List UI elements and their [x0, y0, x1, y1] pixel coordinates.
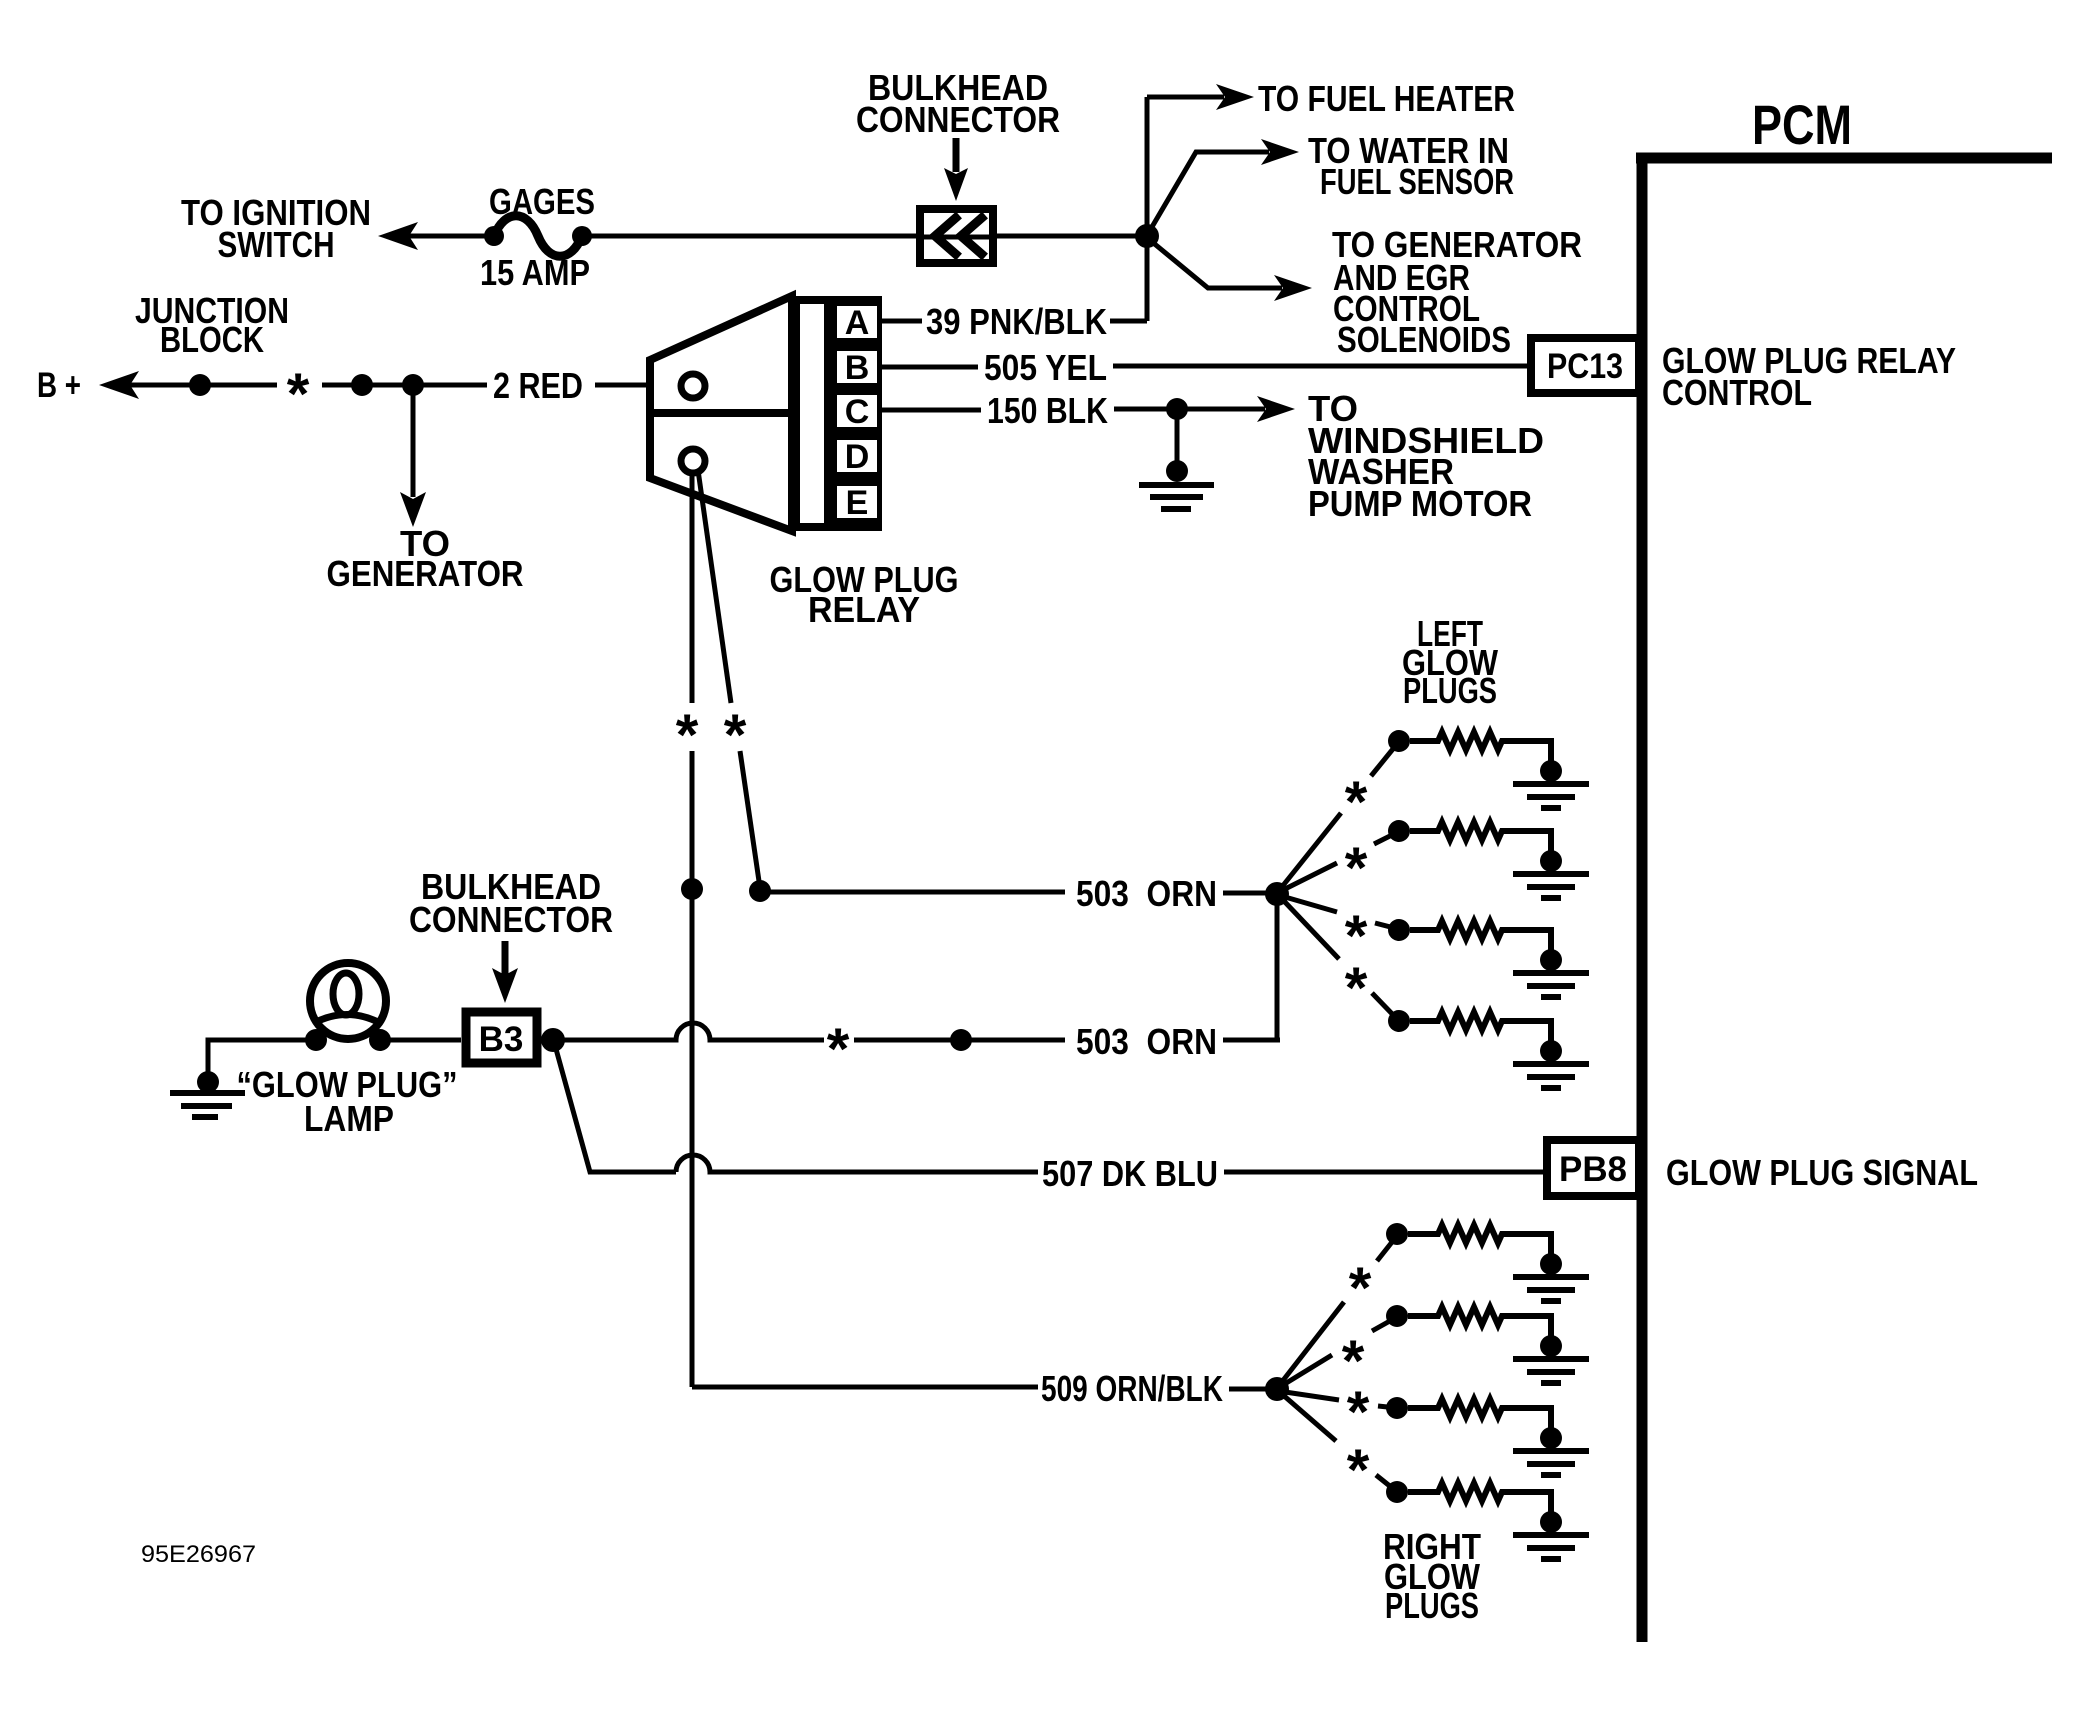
- svg-text:SWITCH: SWITCH: [218, 224, 335, 265]
- relay coil terminal upper: [681, 374, 705, 398]
- svg-text:150 BLK: 150 BLK: [987, 390, 1108, 431]
- glow plug L3: [1388, 919, 1589, 997]
- svg-text:D: D: [845, 438, 870, 476]
- label "GLOW PLUG" LAMP: [237, 1064, 458, 1139]
- label GLOW PLUG RELAY CONTROL: [1662, 340, 1956, 413]
- wire 505 YEL to PC13: [1113, 364, 1527, 369]
- node dot start of 503 ORN: [749, 880, 771, 902]
- svg-text:503 ORN: 503 ORN: [1076, 873, 1217, 914]
- arrow down to B3: [502, 941, 509, 976]
- wire fan L2: [1283, 863, 1337, 890]
- svg-text:LAMP: LAMP: [304, 1098, 394, 1139]
- svg-text:PC13: PC13: [1547, 347, 1623, 386]
- PCM top boundary line: [1636, 153, 2052, 164]
- wire 509 ORN/BLK: [692, 1385, 1038, 1390]
- svg-text:PLUGS: PLUGS: [1403, 670, 1497, 711]
- wire fan R3: [1285, 1392, 1339, 1400]
- svg-text:2 RED: 2 RED: [493, 365, 583, 406]
- svg-text:CONNECTOR: CONNECTOR: [856, 99, 1060, 140]
- svg-text:B3: B3: [479, 1020, 524, 1059]
- wire 150 BLK to ground junction: [1114, 407, 1265, 412]
- wire diagonal from relay lower terminal (upper part): [698, 470, 731, 703]
- relay coil terminal lower: [681, 449, 705, 473]
- svg-text:PB8: PB8: [1559, 1150, 1627, 1189]
- wire 509 ORN/BLK to fan junction: [1229, 1387, 1270, 1392]
- svg-text:*: *: [287, 362, 310, 427]
- wire 507 DK BLU (with hop): [676, 1155, 1038, 1172]
- wire fan R1: [1281, 1302, 1344, 1383]
- svg-text:*: *: [1345, 770, 1368, 835]
- wire pin C lead: [882, 408, 981, 413]
- connector B3: [466, 1012, 537, 1063]
- wire fuse to arrow: [409, 234, 494, 239]
- wire 507 DK BLU diagonal from B3: [556, 1049, 676, 1172]
- svg-text:CONTROL: CONTROL: [1662, 372, 1812, 413]
- wire fan junction down to lower 503 ORN: [1275, 894, 1280, 1040]
- glow plug R4: [1386, 1481, 1589, 1559]
- glow plug L2: [1388, 820, 1589, 898]
- arrow to ignition switch: [378, 222, 418, 250]
- svg-text:C: C: [845, 393, 870, 431]
- svg-text:15 AMP: 15 AMP: [480, 252, 590, 293]
- svg-text:PUMP MOTOR: PUMP MOTOR: [1308, 483, 1532, 524]
- svg-text:PCM: PCM: [1752, 93, 1852, 156]
- label TO GENERATOR AND EGR CONTROL SOLENOIDS: [1332, 224, 1582, 360]
- node dot 150 BLK: [1166, 398, 1188, 420]
- svg-text:*: *: [1347, 1380, 1370, 1445]
- label TO GENERATOR: [327, 523, 524, 594]
- wire vertical through junction (39 PNK/BLK riser): [1145, 97, 1150, 321]
- node fan junction right bank: [1265, 1377, 1289, 1401]
- terminal PC13: [1531, 338, 1639, 393]
- svg-text:GLOW PLUG SIGNAL: GLOW PLUG SIGNAL: [1666, 1152, 1978, 1193]
- wire 39 PNK/BLK to riser: [1110, 319, 1147, 324]
- svg-text:TO FUEL HEATER: TO FUEL HEATER: [1258, 78, 1515, 119]
- wire 503 ORN to fan junction: [1223, 891, 1270, 896]
- node dot: [351, 374, 373, 396]
- svg-text:*: *: [1347, 1438, 1370, 1503]
- svg-text:505 YEL: 505 YEL: [984, 347, 1107, 388]
- arrow to windshield washer pump motor: [1257, 396, 1295, 422]
- relay pin B: [837, 351, 877, 383]
- svg-text:503 ORN: 503 ORN: [1076, 1021, 1217, 1062]
- label GLOW PLUG RELAY: [770, 559, 959, 630]
- wire B+ right segment 2 RED: [322, 383, 487, 388]
- svg-text:SOLENOIDS: SOLENOIDS: [1337, 319, 1511, 360]
- node dot on B+ wire: [189, 374, 211, 396]
- wire fuse to bulkhead connector: [582, 234, 1147, 239]
- node dot on vertical wire: [681, 878, 703, 900]
- terminal PB8: [1547, 1140, 1639, 1196]
- svg-text:509 ORN/BLK: 509 ORN/BLK: [1041, 1368, 1223, 1409]
- glow plug R3: [1386, 1397, 1589, 1475]
- svg-text:PLUGS: PLUGS: [1385, 1585, 1479, 1626]
- svg-text:39 PNK/BLK: 39 PNK/BLK: [926, 301, 1107, 342]
- wire fan L4: [1283, 900, 1339, 959]
- wire 503 ORN lower segment 2: [854, 1038, 1065, 1043]
- wire branch to fuel heater: [1147, 95, 1224, 100]
- wire diagonal continues to 503 ORN: [740, 751, 760, 888]
- ground symbol (lamp): [170, 1093, 245, 1117]
- svg-text:507 DK BLU: 507 DK BLU: [1042, 1153, 1218, 1194]
- wire fan L3: [1285, 897, 1337, 912]
- wire vertical continues to 509 corner: [690, 751, 695, 1387]
- wire fan R4: [1283, 1395, 1336, 1441]
- glow plug R2: [1386, 1305, 1589, 1383]
- wire down to generator: [411, 385, 416, 497]
- relay pin E: [837, 486, 877, 518]
- ground symbol (150 BLK): [1139, 485, 1214, 509]
- arrow B+: [99, 371, 139, 399]
- svg-text:*: *: [676, 703, 699, 768]
- wire 2 RED into relay: [595, 383, 683, 388]
- bulkhead connector symbol (chevrons in box): [920, 209, 993, 263]
- label LEFT GLOW PLUGS: [1402, 613, 1498, 711]
- glow plug L1 (resistor + ground): [1388, 730, 1589, 808]
- label RIGHT GLOW PLUGS: [1383, 1526, 1481, 1626]
- label TO WATER IN FUEL SENSOR: [1308, 130, 1514, 202]
- svg-text:*: *: [827, 1017, 850, 1082]
- wire B+ left segment: [130, 383, 277, 388]
- svg-text:95E26967: 95E26967: [141, 1541, 256, 1568]
- wire 503 ORN lower (with hop): [553, 1023, 824, 1040]
- lamp GLOW PLUG LAMP: [305, 963, 391, 1051]
- node: junction at top right: [1135, 224, 1159, 248]
- wire vertical from relay lower terminal (upper part): [690, 470, 695, 703]
- relay pin C: [837, 395, 877, 427]
- node fan junction left bank: [1265, 882, 1289, 906]
- svg-text:FUEL SENSOR: FUEL SENSOR: [1320, 161, 1514, 202]
- svg-text:B +: B +: [37, 366, 81, 405]
- label BULKHEAD CONNECTOR (top): [856, 67, 1060, 140]
- label JUNCTION BLOCK: [135, 290, 289, 360]
- wire 503 ORN lower to fan riser: [1223, 1038, 1280, 1043]
- node dot right of B3: [541, 1028, 565, 1052]
- wire to ground from 150 BLK: [1175, 409, 1180, 466]
- wire 507 DK BLU to PB8: [1224, 1170, 1543, 1175]
- label TO WINDSHIELD WASHER PUMP MOTOR: [1308, 388, 1544, 524]
- wire branch to water in fuel sensor: [1149, 152, 1269, 232]
- fuse GAGES 15 AMP: [484, 226, 504, 246]
- svg-text:GENERATOR: GENERATOR: [327, 553, 524, 594]
- svg-text:CONNECTOR: CONNECTOR: [409, 899, 613, 940]
- svg-text:B: B: [845, 349, 870, 387]
- label BULKHEAD CONNECTOR (B3): [409, 866, 613, 940]
- node dot at generator tap: [402, 374, 424, 396]
- relay pin D: [837, 440, 877, 472]
- wire pin A lead: [882, 319, 922, 324]
- relay pin A: [837, 306, 877, 338]
- svg-text:*: *: [1345, 956, 1368, 1021]
- wire fan L1: [1281, 813, 1341, 888]
- label TO IGNITION SWITCH: [181, 192, 371, 265]
- PCM left boundary line: [1637, 153, 1648, 1642]
- svg-text:*: *: [1349, 1256, 1372, 1321]
- svg-text:E: E: [846, 484, 869, 522]
- node dot at lamp ground: [197, 1071, 219, 1093]
- glow plug R1: [1386, 1223, 1589, 1301]
- node dot on 503 ORN lower: [950, 1029, 972, 1051]
- wire pin B lead: [882, 365, 978, 370]
- wire ground to lamp: [208, 1040, 316, 1082]
- wire fan R2: [1283, 1355, 1332, 1385]
- glow plug relay body: [650, 296, 882, 531]
- wire lamp to B3: [380, 1038, 461, 1043]
- node dot at ground: [1166, 460, 1188, 482]
- arrow down to bulkhead connector: [953, 138, 960, 172]
- wire 503 ORN upper: [760, 890, 1065, 895]
- svg-text:*: *: [1345, 836, 1368, 901]
- glow plug L4: [1388, 1010, 1589, 1088]
- wire branch to generator and EGR solenoids: [1151, 241, 1282, 288]
- svg-text:A: A: [845, 304, 870, 342]
- svg-text:BLOCK: BLOCK: [160, 319, 264, 360]
- svg-text:RELAY: RELAY: [808, 589, 920, 630]
